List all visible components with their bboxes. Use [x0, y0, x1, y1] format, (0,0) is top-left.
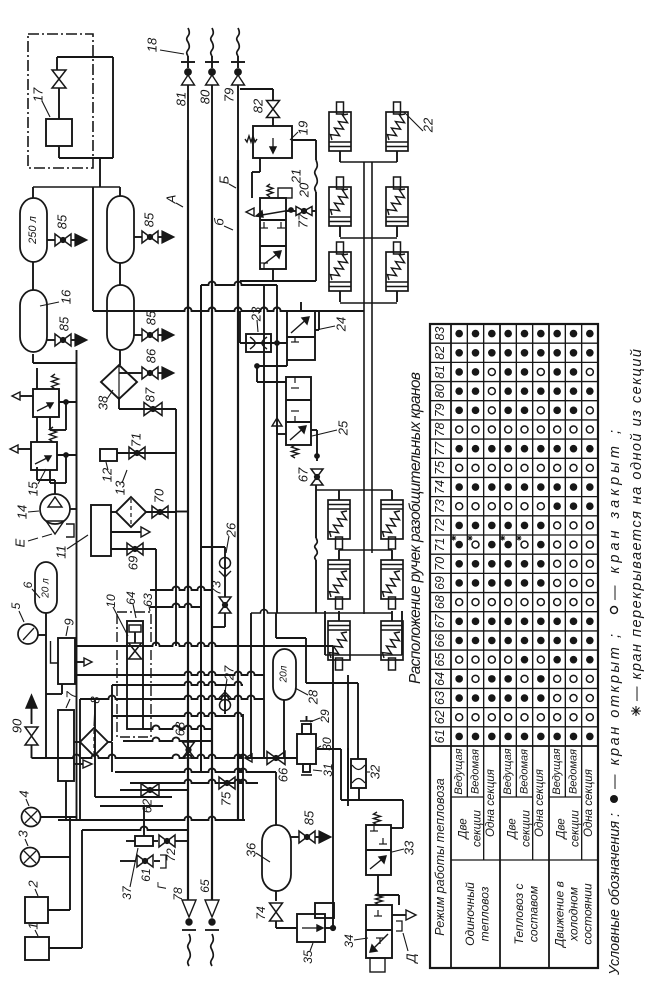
svg-text:70: 70	[152, 488, 167, 503]
svg-text:80: 80	[198, 89, 213, 104]
svg-text:19: 19	[296, 121, 311, 135]
svg-text:Ведомая: Ведомая	[518, 749, 530, 794]
svg-text:37: 37	[120, 885, 134, 900]
svg-text:Условные обозначения :: Условные обозначения :	[607, 813, 623, 976]
svg-text:А: А	[164, 195, 179, 205]
svg-text:Ведущая: Ведущая	[453, 748, 465, 794]
svg-text:77: 77	[433, 441, 447, 456]
svg-text:Одна секция: Одна секция	[534, 769, 546, 837]
svg-text:36: 36	[244, 842, 259, 857]
svg-text:80: 80	[433, 384, 447, 398]
svg-text:3: 3	[16, 830, 31, 838]
svg-text:11: 11	[54, 545, 69, 559]
svg-text:38: 38	[96, 395, 111, 410]
svg-text:68: 68	[173, 721, 188, 736]
svg-text:63: 63	[141, 593, 155, 607]
svg-text:28: 28	[306, 689, 321, 705]
svg-text:4: 4	[17, 790, 32, 797]
svg-text:73: 73	[209, 580, 224, 595]
svg-text:30: 30	[320, 737, 334, 751]
svg-text:83: 83	[433, 327, 447, 341]
svg-text:75: 75	[219, 791, 234, 806]
svg-text:Ведомая: Ведомая	[469, 749, 481, 794]
svg-text:77: 77	[296, 213, 311, 228]
svg-text:— кран перекрывается на одн: — кран перекрывается на одной из секций	[629, 349, 645, 702]
svg-text:85: 85	[55, 214, 70, 229]
svg-text:66: 66	[276, 767, 291, 782]
svg-text:67: 67	[433, 613, 447, 628]
svg-text:79: 79	[222, 88, 237, 102]
svg-text:16: 16	[59, 289, 74, 304]
svg-text:Ведущая: Ведущая	[551, 748, 563, 794]
svg-text:61: 61	[433, 729, 447, 743]
svg-text:82: 82	[251, 98, 266, 113]
svg-text:Одна секция: Одна секция	[485, 769, 497, 837]
svg-text:64: 64	[124, 591, 138, 605]
svg-text:12: 12	[100, 467, 115, 482]
svg-text:64: 64	[433, 672, 447, 686]
svg-text:72: 72	[433, 518, 447, 532]
svg-text:составом: составом	[527, 886, 541, 942]
svg-text:78: 78	[171, 887, 185, 901]
svg-text:62: 62	[433, 710, 447, 724]
svg-text:75: 75	[433, 461, 447, 475]
svg-text:85: 85	[57, 316, 72, 331]
svg-text:61: 61	[139, 868, 153, 881]
svg-text:Расположение ручек разобщите: Расположение ручек разобщительных кранов	[407, 372, 424, 684]
svg-text:Две: Две	[556, 818, 568, 840]
svg-text:секции: секции	[569, 809, 581, 847]
svg-text:85: 85	[142, 212, 157, 227]
svg-text:Ведомая: Ведомая	[567, 749, 579, 794]
svg-text:69: 69	[433, 576, 447, 590]
svg-text:68: 68	[433, 595, 447, 609]
svg-text:70: 70	[433, 557, 447, 571]
svg-text:74: 74	[433, 480, 447, 494]
svg-text:85: 85	[302, 810, 317, 825]
svg-text:34: 34	[342, 934, 356, 948]
svg-text:81: 81	[433, 365, 447, 379]
svg-text:72: 72	[164, 848, 178, 862]
svg-text:секции: секции	[471, 809, 483, 847]
svg-text:32: 32	[368, 764, 383, 779]
svg-text:67: 67	[296, 467, 311, 482]
svg-text:85: 85	[144, 310, 159, 325]
svg-text:9: 9	[62, 618, 77, 625]
svg-text:8: 8	[88, 696, 103, 704]
svg-text:Движение в: Движение в	[553, 881, 567, 949]
svg-text:состоянии: состоянии	[580, 883, 594, 945]
svg-text:Две: Две	[458, 818, 470, 840]
svg-text:35: 35	[301, 950, 315, 964]
svg-text:17: 17	[31, 87, 46, 102]
svg-text:20: 20	[297, 182, 312, 198]
svg-text:69: 69	[126, 556, 141, 570]
svg-text:66: 66	[433, 634, 447, 648]
svg-text:2: 2	[26, 880, 41, 889]
svg-text:1: 1	[26, 922, 41, 929]
svg-text:87: 87	[143, 387, 158, 402]
svg-text:б: б	[212, 218, 227, 226]
svg-text:26: 26	[224, 522, 239, 538]
svg-text:Две: Две	[507, 818, 519, 840]
svg-text:холодном: холодном	[567, 887, 581, 942]
svg-text:86: 86	[144, 348, 159, 363]
svg-text:13: 13	[113, 480, 128, 495]
svg-text:65: 65	[433, 653, 447, 667]
svg-text:15: 15	[26, 481, 41, 496]
svg-text:90: 90	[10, 718, 25, 733]
svg-text:Ведущая: Ведущая	[502, 748, 514, 794]
svg-text:14: 14	[15, 505, 30, 519]
svg-text:Д: Д	[404, 953, 419, 964]
svg-text:250 л: 250 л	[27, 216, 39, 245]
svg-text:62: 62	[140, 798, 155, 813]
svg-text:29: 29	[318, 709, 332, 724]
svg-text:20л: 20л	[279, 665, 290, 683]
svg-text:82: 82	[433, 346, 447, 360]
svg-text:79: 79	[433, 403, 447, 417]
svg-text:секции: секции	[520, 809, 532, 847]
svg-text:78: 78	[433, 423, 447, 437]
svg-text:81: 81	[174, 92, 189, 106]
svg-text:33: 33	[402, 840, 417, 855]
svg-text:5: 5	[9, 602, 23, 609]
svg-text:25: 25	[336, 420, 351, 436]
svg-text:7: 7	[64, 691, 79, 699]
svg-text:Тепловоз с: Тепловоз с	[512, 883, 526, 944]
svg-text:31: 31	[321, 763, 335, 776]
svg-text:24: 24	[334, 317, 349, 332]
svg-text:6: 6	[21, 581, 35, 588]
svg-text:Одна секция: Одна секция	[583, 769, 595, 837]
svg-text:23: 23	[249, 306, 264, 322]
svg-text:Е: Е	[13, 538, 28, 547]
svg-text:27: 27	[222, 665, 237, 681]
svg-text:73: 73	[433, 499, 447, 513]
svg-text:20 л: 20 л	[41, 578, 52, 599]
svg-text:74: 74	[254, 906, 268, 920]
svg-text:65: 65	[198, 879, 212, 893]
svg-text:Режим работы тепловоза: Режим работы тепловоза	[433, 778, 447, 936]
svg-text:тепловоз: тепловоз	[478, 886, 492, 941]
svg-text:63: 63	[433, 691, 447, 705]
svg-text:Б: Б	[217, 175, 232, 184]
svg-text:10: 10	[104, 594, 118, 608]
svg-text:71: 71	[129, 433, 144, 447]
svg-text:71: 71	[433, 538, 447, 552]
svg-text:Одиночный: Одиночный	[463, 882, 477, 946]
svg-text:21: 21	[289, 169, 304, 184]
svg-text:22: 22	[421, 117, 436, 133]
svg-text:18: 18	[145, 37, 160, 52]
